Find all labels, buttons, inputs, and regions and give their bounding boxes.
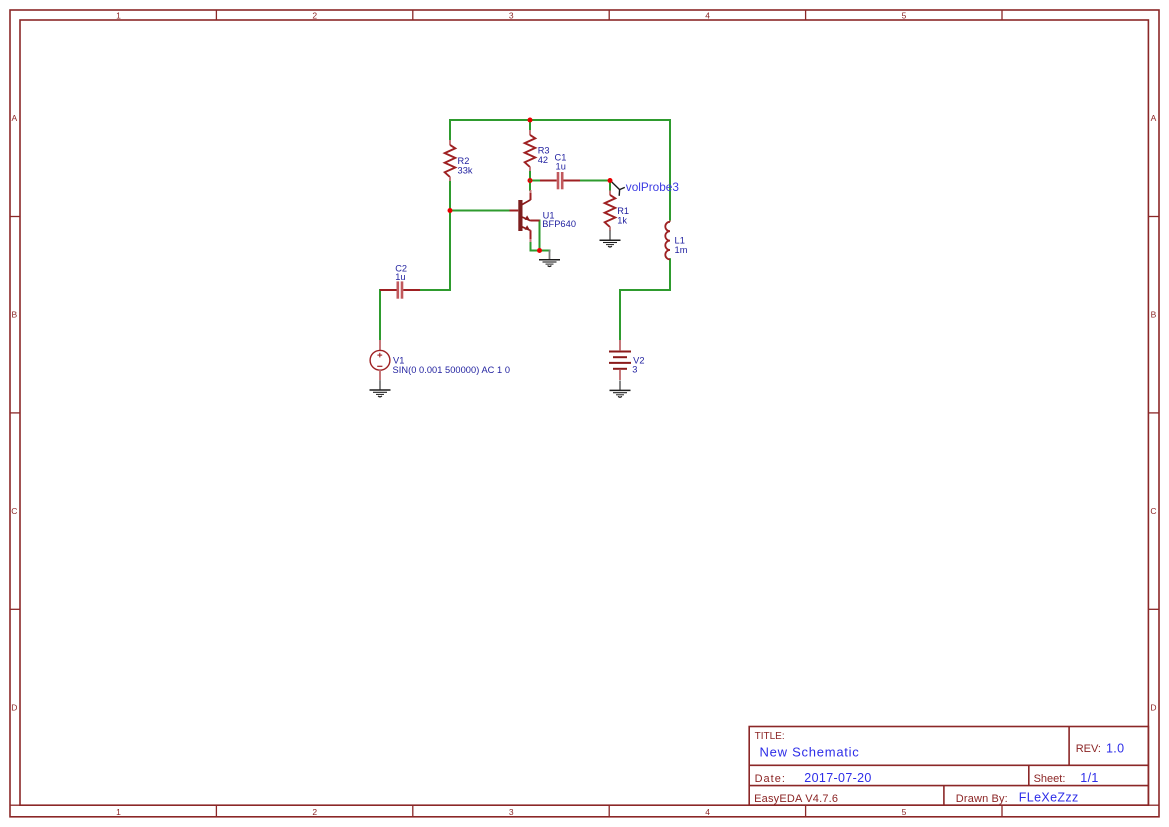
wire collector — [529, 181, 531, 191]
wire C2 left down to V1 — [379, 290, 381, 340]
wire emitter2 down — [530, 242, 532, 251]
wire L1 to V2 horizontal — [620, 289, 670, 291]
svg-text:1: 1 — [116, 11, 121, 21]
svg-text:R1: R1 — [617, 206, 629, 216]
svg-text:5: 5 — [902, 807, 907, 817]
svg-text:B: B — [1151, 310, 1157, 320]
svg-text:2: 2 — [312, 807, 317, 817]
svg-text:Sheet:: Sheet: — [1034, 773, 1066, 785]
capacitor C2 — [380, 281, 420, 298]
svg-text:BFP640: BFP640 — [542, 219, 576, 229]
junction node: R3 / C1 / collector — [528, 178, 533, 183]
ruler letters right — [1150, 113, 1156, 712]
svg-text:EasyEDA V4.7.6: EasyEDA V4.7.6 — [754, 793, 838, 805]
svg-text:1.0: 1.0 — [1106, 742, 1124, 756]
ground below transistor — [539, 250, 560, 267]
svg-text:4: 4 — [705, 807, 710, 817]
probe symbol volProbe3 — [611, 181, 625, 196]
ruler ticks bottom — [216, 805, 1002, 817]
svg-text:New Schematic: New Schematic — [760, 744, 860, 759]
svg-text:D: D — [11, 702, 17, 712]
ruler ticks left — [10, 217, 20, 610]
junction node: R2 / base / C2 branch — [448, 208, 453, 213]
svg-text:1k: 1k — [617, 216, 627, 226]
wire base — [450, 210, 510, 212]
svg-text:Date:: Date: — [755, 773, 786, 785]
svg-text:2017-07-20: 2017-07-20 — [804, 771, 871, 785]
ground below V1 — [370, 380, 391, 397]
capacitor C1 — [540, 172, 580, 189]
ruler letters left — [11, 113, 17, 712]
wire emitter to ground — [531, 250, 550, 252]
svg-text:A: A — [1151, 113, 1157, 123]
wire right column upper — [669, 120, 671, 221]
svg-text:1u: 1u — [556, 162, 566, 172]
svg-text:R2: R2 — [458, 156, 470, 166]
svg-text:L1: L1 — [675, 236, 685, 246]
svg-text:SIN(0 0.001 500000) AC 1 0: SIN(0 0.001 500000) AC 1 0 — [393, 365, 511, 375]
svg-text:D: D — [1150, 702, 1156, 712]
svg-text:1/1: 1/1 — [1080, 771, 1098, 785]
ground below V2 — [610, 381, 631, 398]
svg-text:volProbe3: volProbe3 — [626, 180, 680, 194]
resistor R2 — [445, 140, 456, 181]
ruler ticks right — [10, 217, 1159, 806]
svg-text:A: A — [11, 113, 17, 123]
svg-text:R3: R3 — [538, 146, 550, 156]
ruler numbers top — [116, 11, 907, 21]
wire V2 top — [619, 290, 621, 340]
wire emitter1 down — [539, 221, 541, 251]
wire right column lower — [669, 259, 671, 290]
wire C2 right — [420, 289, 450, 291]
wire R2 top — [449, 120, 451, 140]
svg-text:4: 4 — [705, 11, 710, 21]
svg-text:3: 3 — [632, 365, 637, 375]
svg-text:FLeXeZzz: FLeXeZzz — [1019, 791, 1079, 805]
svg-text:REV:: REV: — [1076, 743, 1101, 755]
junction node: top rail / R3 — [528, 118, 533, 123]
wire R3 top — [529, 120, 531, 131]
svg-text:C: C — [11, 506, 17, 516]
wire C1 right — [579, 180, 610, 182]
svg-text:5: 5 — [902, 11, 907, 21]
title block box — [749, 727, 1148, 806]
svg-text:3: 3 — [509, 11, 514, 21]
wire R3 bottom — [529, 171, 531, 181]
svg-text:42: 42 — [538, 155, 548, 165]
ruler ticks top — [216, 10, 1002, 20]
svg-text:B: B — [11, 310, 17, 320]
inductor L1 — [665, 221, 670, 260]
wire R1 top — [609, 181, 611, 191]
svg-text:3: 3 — [509, 807, 514, 817]
junction node: C1 / R1 / probe (volProbe3) — [608, 178, 613, 183]
resistor R1 — [605, 191, 616, 232]
battery V2 — [609, 340, 631, 380]
svg-text:33k: 33k — [458, 165, 473, 175]
voltage source V1 — [370, 340, 390, 380]
wire base junction down to C2 — [449, 211, 451, 291]
svg-text:TITLE:: TITLE: — [755, 731, 785, 742]
svg-text:1m: 1m — [675, 245, 688, 255]
junction node: emitters / ground — [537, 248, 542, 253]
svg-text:1u: 1u — [395, 272, 405, 282]
ground below R1 — [600, 230, 621, 247]
resistor R3 — [525, 130, 536, 171]
wire top rail — [450, 119, 670, 121]
ruler numbers bottom — [116, 807, 907, 817]
svg-text:Drawn By:: Drawn By: — [956, 793, 1008, 805]
transistor U1 BFP640 — [510, 190, 540, 242]
wire C1 left — [530, 180, 541, 182]
svg-text:C: C — [1150, 506, 1156, 516]
wire R2 bottom to base junction — [449, 181, 451, 211]
svg-text:2: 2 — [312, 11, 317, 21]
svg-text:1: 1 — [116, 807, 121, 817]
